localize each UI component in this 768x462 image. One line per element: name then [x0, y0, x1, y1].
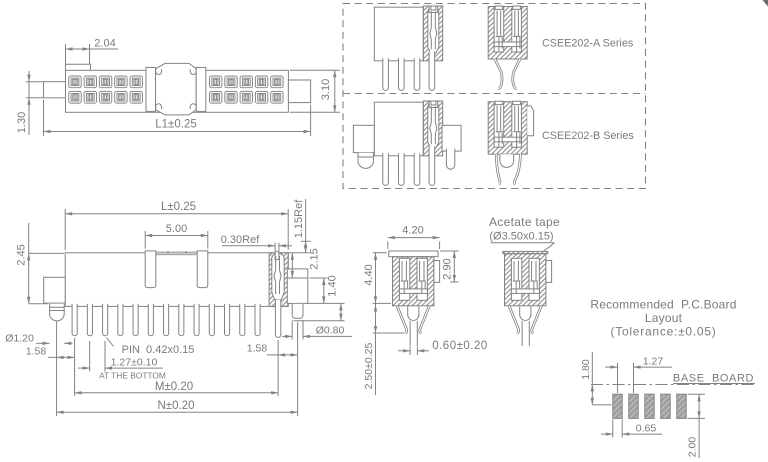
- front view posts: [145, 251, 156, 288]
- front view contact pin: [275, 300, 280, 338]
- mid view right tab: [546, 261, 552, 283]
- svg-text:L1±0.25: L1±0.25: [155, 119, 197, 131]
- svg-text:(Ø3.50x0.15): (Ø3.50x0.15): [489, 231, 553, 243]
- svg-text:1.30: 1.30: [16, 112, 28, 133]
- svg-text:(Tolerance:±0.05): (Tolerance:±0.05): [610, 325, 716, 339]
- dim 2.04: [65, 44, 67, 64]
- svg-text:Ø0.80: Ø0.80: [316, 325, 345, 337]
- side view long pin: [429, 51, 435, 90]
- svg-text:4.40: 4.40: [363, 264, 375, 285]
- svg-text:AT THE BOTTOM: AT THE BOTTOM: [99, 370, 166, 380]
- CSEE202-B end view legs: [496, 154, 500, 184]
- mid view cross band: [511, 289, 539, 294]
- svg-text:Ø1.20: Ø1.20: [5, 332, 34, 344]
- right tab lower ext: [308, 302, 345, 304]
- end view top notches: [495, 101, 503, 104]
- end view cross band: [494, 137, 521, 142]
- dim 1.40: [323, 278, 325, 303]
- CSEE202-B right corner tab: [527, 106, 533, 136]
- svg-text:5.00: 5.00: [166, 223, 187, 235]
- svg-text:1.58: 1.58: [26, 345, 47, 357]
- mid view center pin: [521, 321, 523, 346]
- top view: center latch: [156, 63, 197, 115]
- front view right tab: [287, 269, 308, 304]
- right pin center ext line: [297, 322, 299, 416]
- svg-text:2.00: 2.00: [687, 437, 699, 458]
- svg-text:0.60±0.20: 0.60±0.20: [432, 340, 488, 352]
- mid view legs: [397, 306, 407, 334]
- mid view contacts: [513, 261, 520, 293]
- CSEE202-B end view boss: [500, 154, 514, 167]
- front view tape strip: [156, 252, 197, 255]
- side view body: [374, 102, 423, 156]
- dim 1.27 pcb: [617, 363, 619, 393]
- svg-text:0.65: 0.65: [636, 422, 657, 434]
- side view slot top opening: [429, 101, 438, 108]
- side view contact: [430, 11, 437, 49]
- front view left tab: [44, 277, 65, 303]
- svg-text:3.10: 3.10: [320, 79, 332, 100]
- svg-text:1.80: 1.80: [580, 359, 592, 380]
- side view pins: [383, 58, 389, 90]
- front view left boss: [50, 304, 65, 321]
- top view: left tab: [44, 82, 66, 98]
- front view slot opening: [275, 252, 279, 260]
- svg-text:PIN 0.42x0.15: PIN 0.42x0.15: [122, 344, 195, 356]
- top view: connector body: [66, 70, 289, 112]
- svg-text:CSEE202-B Series: CSEE202-B Series: [542, 130, 634, 142]
- top view: contact cells right block: [210, 76, 222, 88]
- svg-text:1.27: 1.27: [643, 355, 664, 367]
- svg-text:Acetate tape: Acetate tape: [489, 215, 560, 229]
- side view contact slot: [428, 102, 439, 148]
- svg-text:2.45: 2.45: [16, 244, 28, 265]
- svg-text:N±0.20: N±0.20: [158, 400, 195, 412]
- dim 2.00: [688, 393, 706, 395]
- svg-text:Layout: Layout: [645, 311, 683, 325]
- mid view cross band: [399, 289, 427, 294]
- svg-text:0.30Ref: 0.30Ref: [221, 234, 260, 246]
- mid view legs: [509, 306, 519, 334]
- side view slot top opening: [429, 6, 438, 13]
- mid view slots: [399, 258, 409, 300]
- CSEE202-A end view legs: [495, 59, 502, 89]
- pin1 ext line: [74, 338, 76, 396]
- svg-text:2.04: 2.04: [94, 38, 115, 50]
- mid view contacts: [401, 261, 408, 293]
- CSEE202-B right tab: [442, 125, 461, 151]
- dim 2.50 +/-0.25: [373, 332, 404, 334]
- side view body: [374, 7, 423, 61]
- mid view flange: [389, 251, 438, 257]
- dim 3.10: [290, 69, 340, 71]
- dim 0.65: [612, 420, 614, 438]
- dim M +/-0.20: [75, 392, 279, 394]
- top view: right tab: [288, 80, 310, 103]
- side view hatched wall: [423, 101, 442, 156]
- dim 2.90: [440, 250, 459, 252]
- side view hatched wall: [423, 6, 442, 61]
- end view contacts: [496, 11, 503, 53]
- mid view center pin: [409, 321, 411, 346]
- dim dia 0.80: [291, 320, 293, 339]
- side view pins: [383, 153, 389, 185]
- boss center ext line: [56, 322, 58, 417]
- end view slots: [494, 103, 504, 147]
- dashed divider: [343, 93, 646, 95]
- front view contact: [274, 256, 281, 294]
- dim 2.15: [291, 253, 293, 278]
- leader acetate tape: [544, 243, 555, 252]
- dim N +/-0.20: [57, 411, 298, 413]
- svg-text:4.20: 4.20: [402, 225, 423, 237]
- mid view center boss: [520, 307, 531, 321]
- end view cross band: [494, 42, 521, 47]
- mid view slots: [511, 258, 521, 300]
- leader PIN 0.42x0.15: [107, 338, 114, 347]
- dim 1.27 +/-0.10: [89, 341, 91, 372]
- svg-text:1.40: 1.40: [327, 275, 339, 296]
- corner mark: [763, 0, 768, 6]
- pcb pads: [613, 394, 622, 418]
- dim 2.45: [29, 252, 64, 254]
- svg-text:2.50±0.25: 2.50±0.25: [363, 343, 375, 390]
- CSEE202-B left boss: [358, 153, 373, 169]
- end view contacts: [496, 106, 503, 148]
- dim 0.60 +/-0.20: [409, 347, 411, 356]
- dashed frame CSEE202 series: [343, 4, 646, 189]
- front view body: [65, 253, 288, 307]
- top view: top-left step: [66, 64, 91, 70]
- svg-text:2.90: 2.90: [442, 258, 454, 279]
- front view right pin: [292, 304, 303, 318]
- side view contact: [430, 106, 437, 144]
- svg-text:1.27±0.10: 1.27±0.10: [111, 356, 158, 368]
- base board center line: [591, 384, 755, 386]
- dim 4.40: [373, 252, 387, 254]
- end view slots: [494, 8, 504, 52]
- dim 5.00: [144, 231, 146, 249]
- CSEE202-B left tab: [353, 125, 374, 152]
- svg-text:1.15Ref: 1.15Ref: [293, 199, 305, 238]
- svg-text:2.15: 2.15: [309, 248, 321, 269]
- front view hatched wall: [269, 253, 288, 307]
- dim right pin depth: [294, 320, 345, 322]
- end view top notches: [495, 6, 503, 9]
- dim 1.15Ref: [288, 252, 309, 254]
- mid view center boss: [408, 307, 419, 321]
- front view contact slot: [272, 253, 284, 299]
- mid view right tab: [434, 261, 440, 283]
- side view contact slot: [428, 7, 439, 54]
- top view: latch notches: [156, 69, 162, 74]
- svg-text:M±0.20: M±0.20: [155, 381, 193, 393]
- end view hatched block: [488, 7, 527, 60]
- front view pins: [72, 304, 77, 336]
- dim 4.20: [387, 242, 389, 250]
- side view long pin: [429, 146, 435, 185]
- dim 0.30Ref: [274, 243, 276, 251]
- dim 1.30: [26, 81, 43, 83]
- dim L +/-0.25: [64, 209, 66, 250]
- CSEE202-B right pin: [446, 149, 454, 169]
- mid view tape strip: [503, 251, 548, 253]
- svg-text:BASE BOARD: BASE BOARD: [673, 373, 754, 385]
- svg-text:1.58: 1.58: [247, 342, 268, 354]
- svg-text:L±0.25: L±0.25: [161, 201, 196, 213]
- svg-text:CSEE202-A Series: CSEE202-A Series: [542, 38, 634, 50]
- contact ext line: [277, 340, 279, 396]
- end view hatched block: [488, 102, 527, 155]
- top view: contact cells left block: [69, 76, 81, 88]
- svg-text:Recommended P.C.Board: Recommended P.C.Board: [590, 298, 736, 312]
- dim L1 +/-0.25: [43, 100, 45, 136]
